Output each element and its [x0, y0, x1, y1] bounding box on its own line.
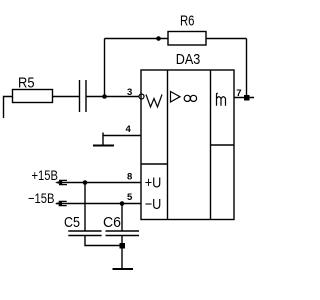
- op-amp triangle symbol: [171, 92, 181, 103]
- svg-text:R5: R5: [18, 75, 35, 92]
- wire C6 branch: [121, 204, 123, 232]
- wire feedback left vertical: [104, 39, 106, 97]
- wire input stub left of R5: [4, 97, 13, 119]
- node junction +15V / C5: [83, 180, 88, 185]
- wire C5 branch: [84, 183, 86, 232]
- wire R6 left: [105, 38, 169, 40]
- wire R5 to capacitor: [53, 96, 80, 98]
- svg-text:−15В: −15В: [28, 190, 55, 206]
- node junction -15V / C6: [120, 201, 125, 206]
- wire capacitor to pin 3: [86, 96, 139, 98]
- wire output pin 7: [234, 97, 254, 99]
- op-amp U1 DA3 box: [141, 70, 234, 220]
- capacitor C5: [68, 231, 101, 236]
- svg-text:5: 5: [127, 192, 133, 203]
- wire C5 bottom: [85, 236, 122, 246]
- op-amp W symbol: [146, 95, 162, 108]
- svg-text:4: 4: [126, 124, 132, 135]
- ground (bottom): [113, 268, 134, 270]
- op-amp infinity symbol: [184, 95, 190, 101]
- svg-text:−U: −U: [145, 196, 162, 213]
- wire feedback right vertical: [246, 39, 248, 98]
- svg-text:8: 8: [127, 172, 132, 183]
- wire to ground: [121, 246, 123, 270]
- svg-text:7: 7: [236, 88, 241, 99]
- wire R6 right: [206, 38, 247, 40]
- capacitor (series input): [80, 80, 87, 112]
- ground (pin 4): [102, 133, 104, 146]
- node junction on input (inverting node): [102, 94, 107, 99]
- svg-text:3: 3: [127, 87, 132, 98]
- node junction output pin 7: [244, 95, 250, 101]
- node junction on R6 wire: [156, 36, 161, 41]
- arrow -15V: [59, 201, 67, 205]
- svg-text:C6: C6: [103, 214, 121, 231]
- resistor R5: [13, 90, 53, 103]
- capacitor C6: [106, 231, 140, 236]
- pin 3 inversion circle: [139, 94, 144, 99]
- wire -15V rail: [56, 203, 141, 205]
- svg-text:R6: R6: [180, 13, 195, 30]
- node junction C5+C6 to ground: [120, 243, 126, 249]
- wire +15V rail: [57, 182, 142, 184]
- arrow +15V: [59, 180, 67, 184]
- svg-text:C5: C5: [64, 214, 80, 231]
- wire C6 bottom: [121, 236, 123, 246]
- svg-text:DA3: DA3: [176, 51, 201, 68]
- resistor R6: [168, 32, 206, 46]
- svg-text:+15В: +15В: [32, 167, 58, 183]
- svg-text:+U: +U: [145, 175, 162, 192]
- wire pin 4: [103, 135, 141, 137]
- op-amp m symbol: [217, 93, 226, 105]
